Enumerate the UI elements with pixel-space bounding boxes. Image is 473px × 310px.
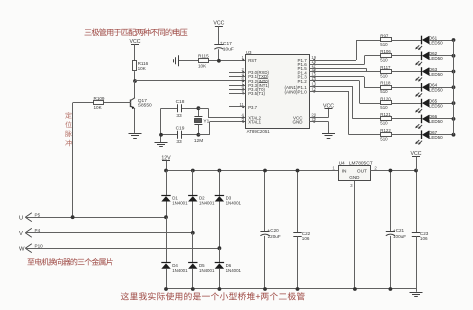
svg-text:C18: C18 xyxy=(176,99,185,105)
svg-text:U4: U4 xyxy=(339,161,345,167)
svg-text:1N4001: 1N4001 xyxy=(199,268,215,273)
svg-text:C17: C17 xyxy=(223,41,232,47)
svg-text:R121: R121 xyxy=(380,112,391,117)
svg-text:106: 106 xyxy=(420,236,428,241)
svg-text:R109: R109 xyxy=(94,96,105,101)
svg-text:510: 510 xyxy=(380,58,388,63)
svg-text:R106: R106 xyxy=(380,49,391,54)
svg-text:R118: R118 xyxy=(380,81,391,86)
svg-text:OUT: OUT xyxy=(357,169,367,175)
svg-text:510: 510 xyxy=(380,42,388,47)
svg-text:10uF: 10uF xyxy=(223,46,234,52)
svg-text:P5: P5 xyxy=(35,212,41,217)
svg-text:P1.2: P1.2 xyxy=(298,79,308,84)
svg-text:R122: R122 xyxy=(380,128,391,133)
svg-text:100uF: 100uF xyxy=(393,234,406,239)
svg-text:LED50: LED50 xyxy=(429,103,443,108)
svg-text:10K: 10K xyxy=(198,64,207,69)
svg-text:GND: GND xyxy=(293,119,304,124)
svg-text:GND: GND xyxy=(349,175,360,180)
svg-text:510: 510 xyxy=(380,137,388,142)
svg-text:Y1: Y1 xyxy=(203,118,209,124)
svg-text:1N4001: 1N4001 xyxy=(172,201,188,206)
svg-text:XTAL1: XTAL1 xyxy=(248,119,261,124)
svg-text:1N4001: 1N4001 xyxy=(172,268,188,273)
svg-text:R120: R120 xyxy=(380,96,391,101)
svg-text:R115: R115 xyxy=(198,54,209,59)
svg-text:C19: C19 xyxy=(176,125,185,131)
svg-text:LED50: LED50 xyxy=(429,40,443,45)
svg-text:LED50: LED50 xyxy=(429,72,443,77)
svg-text:106: 106 xyxy=(302,236,310,241)
svg-text:LED50: LED50 xyxy=(429,56,443,61)
svg-text:33: 33 xyxy=(176,113,182,119)
svg-text:C20: C20 xyxy=(270,228,279,233)
svg-text:510: 510 xyxy=(380,89,388,94)
svg-text:R97: R97 xyxy=(380,33,389,38)
svg-text:LED50: LED50 xyxy=(429,119,443,124)
svg-text:R117: R117 xyxy=(380,65,391,70)
svg-text:LED50: LED50 xyxy=(429,135,443,140)
svg-text:510: 510 xyxy=(380,73,388,78)
svg-text:510: 510 xyxy=(380,121,388,126)
svg-text:LM7805CT: LM7805CT xyxy=(349,161,373,167)
svg-text:IN: IN xyxy=(342,169,347,175)
svg-text:10K: 10K xyxy=(138,66,147,71)
svg-text:P3.5(T1): P3.5(T1) xyxy=(248,91,265,96)
svg-text:1N4001: 1N4001 xyxy=(226,268,242,273)
svg-text:1N4001: 1N4001 xyxy=(199,201,215,206)
svg-text:220uF: 220uF xyxy=(268,234,281,239)
svg-text:(AIN0)P1.0: (AIN0)P1.0 xyxy=(285,89,308,94)
svg-text:12M: 12M xyxy=(194,138,203,144)
svg-text:1N4001: 1N4001 xyxy=(226,201,242,206)
svg-text:S8550: S8550 xyxy=(138,103,152,109)
svg-text:33: 33 xyxy=(176,139,182,145)
svg-text:VCC: VCC xyxy=(213,21,224,27)
svg-text:W: W xyxy=(19,246,25,252)
svg-text:AT89C2051: AT89C2051 xyxy=(247,129,271,134)
svg-text:C21: C21 xyxy=(396,228,405,233)
svg-text:P10: P10 xyxy=(35,243,44,248)
svg-text:RST: RST xyxy=(248,58,257,63)
svg-text:P3.7: P3.7 xyxy=(248,105,257,110)
svg-text:U: U xyxy=(19,215,23,221)
svg-text:V: V xyxy=(19,231,23,237)
svg-text:510: 510 xyxy=(380,105,388,110)
svg-text:VCC: VCC xyxy=(130,39,141,45)
svg-text:10K: 10K xyxy=(94,105,103,110)
svg-text:U3: U3 xyxy=(246,50,252,55)
svg-text:LED50: LED50 xyxy=(429,88,443,93)
